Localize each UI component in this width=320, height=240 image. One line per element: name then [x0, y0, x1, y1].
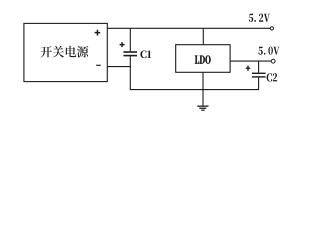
label C1 — [140, 50, 151, 58]
capacitor C1 bottom lead wire — [129, 56, 131, 89]
regulator U1 LDO box — [176, 45, 230, 73]
terminal 5.0V (open circle) — [271, 59, 275, 63]
power supply box PS1 (开关电源) — [24, 23, 107, 81]
bottom rail wire — [130, 89, 259, 91]
minus terminal mark of power supply — [96, 65, 101, 66]
label 5.2V — [249, 14, 270, 22]
wire: LDO output to 5.0V terminal — [230, 60, 271, 62]
capacitor C2 top lead wire — [258, 61, 260, 73]
capacitor C2 plates — [252, 73, 266, 74]
wire: LDO input drop from top rail — [202, 28, 204, 44]
capacitor C1 top lead wire — [129, 28, 131, 51]
plus polarity mark of C1 — [120, 42, 125, 47]
capacitor C2 bottom lead wire — [258, 78, 260, 91]
label C2 — [267, 73, 278, 81]
terminal 5.2V (open circle) — [270, 27, 273, 30]
capacitor C1 plates — [123, 51, 137, 53]
wire: LDO ground lead — [202, 72, 204, 106]
label LDO — [195, 55, 211, 63]
wire: supply + to 5.2V terminal (top rail) — [107, 27, 270, 29]
label 5.0V — [258, 47, 279, 55]
label 开关电源 — [41, 46, 89, 58]
plus terminal mark of power supply — [95, 30, 101, 36]
wire: supply - to C1 node — [107, 66, 130, 68]
ground symbol — [197, 106, 208, 111]
plus polarity mark of C2 — [246, 66, 251, 71]
